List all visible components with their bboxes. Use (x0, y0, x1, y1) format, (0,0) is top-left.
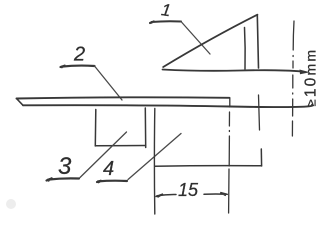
label 4 underline (97, 181, 127, 183)
sheet 2 left pointed end (17, 99, 24, 106)
dim 15 dimension line left part with arrow (156, 194, 176, 197)
label 1 leader wire (181, 22, 210, 55)
block 3 bottom edge (95, 145, 145, 147)
block 3 right edge (144, 108, 146, 148)
sheet 2 top line (17, 97, 230, 98)
sheet 2 bottom line extended to tick (23, 105, 313, 107)
svg-text:15: 15 (178, 180, 199, 200)
projection dash under tip (259, 95, 260, 130)
label 3 underline (47, 178, 80, 181)
lower piece left vertical / dim15 left extension (153, 109, 155, 215)
label 3 leader wire (80, 132, 127, 178)
dim 15 dimension line right part with arrow (204, 193, 227, 196)
centerline (dash-dot) (292, 21, 294, 136)
label 2 underline (61, 65, 95, 67)
tip 1 right edge (257, 15, 258, 68)
svg-text:1: 1 (160, 0, 172, 20)
svg-text:≥10mm: ≥10mm (303, 48, 320, 107)
label 1 underline (150, 21, 181, 23)
lower piece step line (155, 165, 262, 168)
tip 1 inner vertical (244, 28, 247, 70)
tip 1 hypotenuse (163, 15, 257, 67)
tip 1 bottom edge extended to arrow (163, 70, 303, 72)
svg-text:4: 4 (103, 158, 114, 180)
svg-text:3: 3 (58, 153, 72, 180)
label 4 leader wire (128, 134, 181, 180)
svg-text:2: 2 (73, 44, 85, 66)
scan smudge (6, 199, 16, 209)
lower piece riser (260, 149, 262, 166)
block 3 left edge (94, 110, 97, 147)
arrowhead at centerline (300, 70, 311, 75)
dim 15 right extension line (229, 98, 230, 213)
label 2 leader wire (95, 66, 123, 100)
